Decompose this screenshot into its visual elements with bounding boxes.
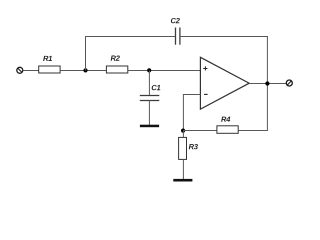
capacitor C1 — [140, 85, 160, 101]
wire top to C2 — [85, 36, 175, 38]
node D output junction dot — [265, 81, 269, 85]
wire op-amp output — [249, 83, 286, 85]
wire inverting input down — [182, 95, 184, 131]
wire R4 to right vertical — [238, 130, 268, 132]
ground below R3 — [173, 179, 192, 182]
wire inverting input — [183, 94, 201, 96]
output terminal — [286, 80, 292, 86]
wire R2 to op-amp — [128, 70, 200, 72]
wire node B down to C1 — [148, 71, 150, 96]
wire node A up — [85, 36, 87, 71]
node B junction dot — [147, 68, 151, 72]
wire node C to R3 — [182, 131, 184, 138]
resistor R1 — [39, 56, 60, 73]
node A junction dot — [83, 68, 87, 72]
resistor R4 — [217, 117, 238, 134]
wire C1 to ground — [148, 101, 150, 125]
wire node C to R4 — [183, 130, 217, 132]
wire right vertical — [266, 36, 268, 131]
resistor R3 — [179, 137, 198, 159]
op-amp U1 — [200, 57, 249, 109]
wire C2 to right vertical — [180, 36, 268, 38]
wire input to R1 — [23, 70, 39, 72]
capacitor C2 — [171, 18, 180, 45]
wire R3 to ground — [182, 159, 184, 179]
ground below C1 — [140, 125, 159, 128]
resistor R2 — [106, 55, 127, 73]
input terminal — [17, 67, 23, 73]
wire R1 to R2 — [60, 70, 106, 72]
node C junction dot — [181, 129, 185, 133]
